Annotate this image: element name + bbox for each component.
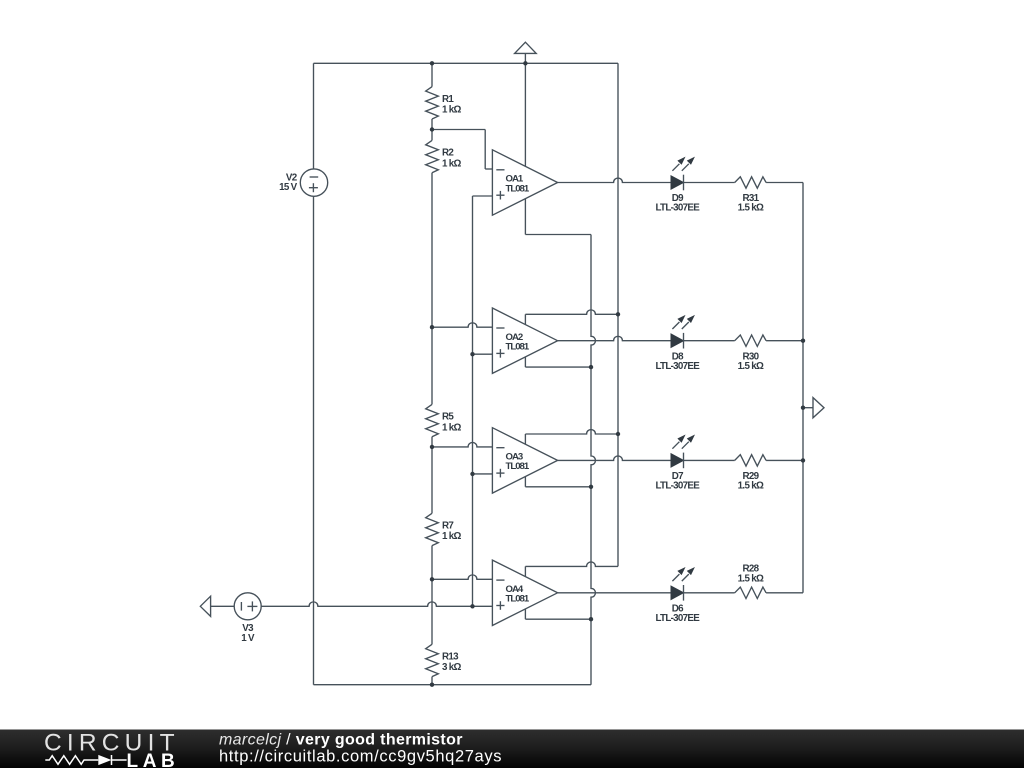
svg-text:marcelcj / very good thermisto: marcelcj / very good thermistor [219, 732, 463, 749]
svg-text:LTL-307EE: LTL-307EE [655, 613, 700, 624]
svg-text:TL081: TL081 [506, 183, 530, 194]
svg-text:1 kΩ: 1 kΩ [442, 422, 462, 433]
svg-text:15 V: 15 V [279, 182, 298, 193]
svg-text:LAB: LAB [127, 751, 180, 768]
svg-text:LTL-307EE: LTL-307EE [655, 203, 700, 214]
svg-text:LTL-307EE: LTL-307EE [655, 481, 700, 492]
svg-text:R13: R13 [442, 652, 459, 663]
svg-text:TL081: TL081 [506, 342, 530, 353]
svg-text:1 kΩ: 1 kΩ [442, 531, 462, 542]
svg-text:1 kΩ: 1 kΩ [442, 105, 462, 116]
svg-text:1.5 kΩ: 1.5 kΩ [738, 203, 764, 214]
svg-text:3 kΩ: 3 kΩ [442, 662, 462, 673]
svg-text:R1: R1 [442, 94, 454, 105]
svg-text:TL081: TL081 [506, 461, 530, 472]
svg-text:1.5 kΩ: 1.5 kΩ [738, 361, 764, 372]
svg-text:TL081: TL081 [506, 594, 530, 605]
svg-text:1.5 kΩ: 1.5 kΩ [738, 574, 764, 585]
svg-text:R5: R5 [442, 412, 454, 423]
svg-text:1 V: 1 V [241, 633, 255, 644]
svg-text:R2: R2 [442, 148, 454, 159]
svg-text:1 kΩ: 1 kΩ [442, 158, 462, 169]
svg-text:1.5 kΩ: 1.5 kΩ [738, 481, 764, 492]
svg-text:http://circuitlab.com/cc9gv5hq: http://circuitlab.com/cc9gv5hq27ays [219, 748, 502, 766]
svg-text:R7: R7 [442, 520, 454, 531]
svg-text:LTL-307EE: LTL-307EE [655, 361, 700, 372]
